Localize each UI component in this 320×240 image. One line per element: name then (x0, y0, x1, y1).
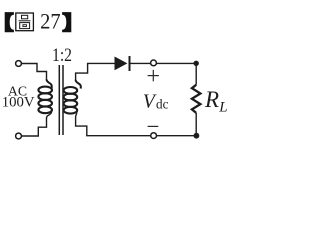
svg-text:1:2: 1:2 (52, 45, 72, 66)
svg-text:27: 27 (40, 9, 61, 34)
svg-text:R: R (204, 87, 219, 112)
svg-text:100V: 100V (2, 95, 35, 111)
svg-text:V: V (143, 92, 157, 113)
svg-text:L: L (218, 100, 227, 116)
svg-text:dc: dc (156, 96, 169, 111)
